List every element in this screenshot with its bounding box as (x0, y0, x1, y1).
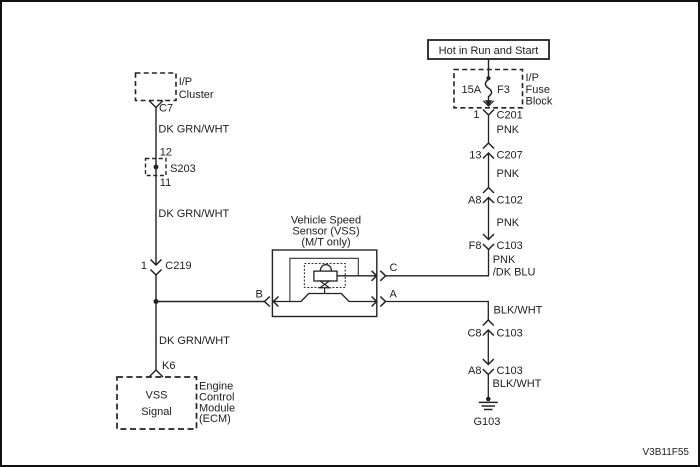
svg-text:13: 13 (469, 150, 481, 162)
svg-text:C8: C8 (467, 328, 481, 340)
svg-text:1: 1 (473, 109, 479, 121)
svg-text:(M/T only): (M/T only) (301, 237, 350, 249)
label diagram id V3B11F55 (642, 447, 689, 458)
wire B-A through VSS (trapezoid) (273, 294, 377, 302)
label pin 11 (160, 177, 171, 189)
svg-text:V3B11F55: V3B11F55 (642, 447, 689, 458)
module I/P Fuse Block (dashed box) (454, 70, 523, 108)
fuse F3 15A (dot, squiggle, output arrow) (483, 76, 493, 106)
svg-text:A: A (390, 289, 398, 301)
power source box Hot in Run and Start (428, 40, 549, 59)
svg-text:(ECM): (ECM) (199, 413, 231, 425)
svg-text:DK GRN/WHT: DK GRN/WHT (158, 208, 229, 220)
svg-text:Hot in Run and Start: Hot in Run and Start (439, 45, 539, 57)
label PNK (497, 168, 520, 180)
svg-text:BLK/WHT: BLK/WHT (493, 378, 542, 390)
svg-text:12: 12 (160, 147, 172, 159)
label C102 (497, 195, 523, 207)
connector C219 pin 1 (inline, pointing down) (151, 260, 162, 276)
svg-text:A8: A8 (468, 195, 481, 207)
module I/P Cluster (dashed box) (136, 73, 177, 101)
label C8 (467, 328, 481, 340)
label F3 (497, 84, 510, 96)
svg-text:C103: C103 (497, 365, 523, 377)
wire VSS terminal A to C8/C103 (386, 302, 489, 321)
label pin 12 (160, 147, 172, 159)
terminal C7 chevron (149, 101, 163, 108)
svg-text:Cluster: Cluster (179, 89, 214, 101)
label A8 (468, 195, 481, 207)
label I/P Cluster (179, 76, 214, 101)
VSS sensor label (291, 215, 361, 249)
svg-text:11: 11 (160, 177, 171, 189)
label VSS Signal (141, 390, 172, 419)
svg-text:G103: G103 (474, 416, 501, 428)
svg-text:PNK: PNK (497, 124, 520, 136)
VSS inner shield box (290, 258, 358, 301)
wire coil to terminal C (337, 275, 377, 277)
junction node at C219/B wire (154, 299, 159, 304)
svg-text:PNK: PNK (497, 217, 520, 229)
wire C102 to C103 (488, 198, 490, 240)
splice S203 (dashed box with dot) (146, 159, 167, 176)
svg-text:B: B (256, 289, 263, 301)
wire C219 to ECM (155, 275, 157, 371)
wire C7 to C219 (155, 108, 157, 265)
VSS core dotted box (304, 264, 345, 288)
svg-text:PNK: PNK (497, 168, 520, 180)
svg-text:C7: C7 (159, 103, 173, 115)
label C207 (497, 150, 523, 162)
svg-text:Block: Block (526, 96, 553, 108)
ground G103 (479, 397, 498, 410)
label G103 (474, 416, 501, 428)
svg-text:C: C (390, 262, 398, 274)
label C103 (497, 240, 523, 252)
svg-text:K6: K6 (162, 360, 175, 372)
svg-text:VSS: VSS (145, 390, 167, 402)
label C7 (159, 103, 173, 115)
label 1 (C219) (141, 260, 147, 272)
svg-text:C207: C207 (497, 150, 523, 162)
VSS coil rectangle (314, 271, 337, 281)
svg-text:C201: C201 (497, 110, 523, 122)
svg-text:Signal: Signal (141, 406, 172, 418)
svg-text:C219: C219 (165, 260, 191, 272)
label B (256, 289, 263, 301)
label Engine Control Module (ECM) (199, 381, 235, 426)
module ECM (dashed box) (117, 377, 197, 429)
VSS magnet circle (321, 265, 332, 271)
label C103 (497, 328, 523, 340)
svg-text:S203: S203 (170, 163, 196, 175)
connector C102 pin A8 (inline, pointing up) (483, 188, 494, 204)
label 13 (469, 150, 481, 162)
svg-text:1: 1 (141, 260, 147, 272)
svg-text:/DK BLU: /DK BLU (493, 267, 536, 279)
label C219 (165, 260, 191, 272)
terminal K6 chevron at ECM (149, 370, 163, 377)
wire C8/C103 to A8/C103 (487, 330, 489, 365)
wire C201 to C207 (488, 115, 490, 143)
label BLK/WHT (493, 378, 542, 390)
wire C207 to C102 (488, 153, 490, 188)
label 1 (C201) (473, 109, 479, 121)
svg-text:F3: F3 (497, 84, 510, 96)
label BLK/WHT (494, 305, 543, 317)
label DK GRN/WHT (159, 335, 230, 347)
svg-text:I/P: I/P (526, 72, 539, 84)
svg-text:PNK: PNK (493, 254, 516, 266)
svg-text:Fuse: Fuse (526, 84, 550, 96)
svg-text:BLK/WHT: BLK/WHT (494, 305, 543, 317)
svg-text:C103: C103 (497, 240, 523, 252)
svg-text:F8: F8 (469, 240, 482, 252)
wire junction to VSS terminal B (156, 301, 265, 303)
label F8 (469, 240, 482, 252)
label DK GRN/WHT (158, 124, 229, 136)
label PNK (497, 217, 520, 229)
svg-text:I/P: I/P (179, 76, 192, 88)
svg-text:C103: C103 (497, 328, 523, 340)
svg-text:A8: A8 (468, 365, 481, 377)
connector C103 pin A8 (inline, pointing down) (483, 359, 494, 375)
svg-text:DK GRN/WHT: DK GRN/WHT (159, 335, 230, 347)
label C (390, 262, 398, 274)
label PNK (497, 124, 520, 136)
svg-text:DK GRN/WHT: DK GRN/WHT (158, 124, 229, 136)
label 15A (462, 84, 482, 96)
wire bowtie stem (324, 288, 326, 294)
label K6 (162, 360, 175, 372)
connector C103 pin C8 (inline, pointing up) (483, 320, 494, 336)
label DK GRN/WHT (158, 208, 229, 220)
svg-text:15A: 15A (462, 84, 482, 96)
connector C103 pin F8 (inline, pointing down) (483, 234, 494, 250)
label A8 (468, 365, 481, 377)
terminal C chevrons (372, 271, 386, 281)
wire Hot box to fuse (488, 59, 490, 78)
terminal B chevrons (265, 297, 279, 307)
label S203 (170, 163, 196, 175)
svg-text:C102: C102 (497, 195, 523, 207)
label C201 (497, 110, 523, 122)
VSS sensor outer box (272, 250, 376, 317)
connector C207 pin 13 (inline, pointing up) (483, 143, 494, 159)
terminal A chevrons (372, 297, 386, 307)
label A (390, 289, 398, 301)
wire C103 to VSS terminal C (386, 250, 489, 276)
label I/P Fuse Block (526, 72, 553, 108)
connector C201 pin 1 (female V below fuse block) (483, 110, 494, 116)
VSS bowtie (320, 281, 329, 288)
label PNK /DK BLU (493, 254, 536, 279)
label C103 (497, 365, 523, 377)
wire A8/C103 to ground (487, 375, 489, 400)
